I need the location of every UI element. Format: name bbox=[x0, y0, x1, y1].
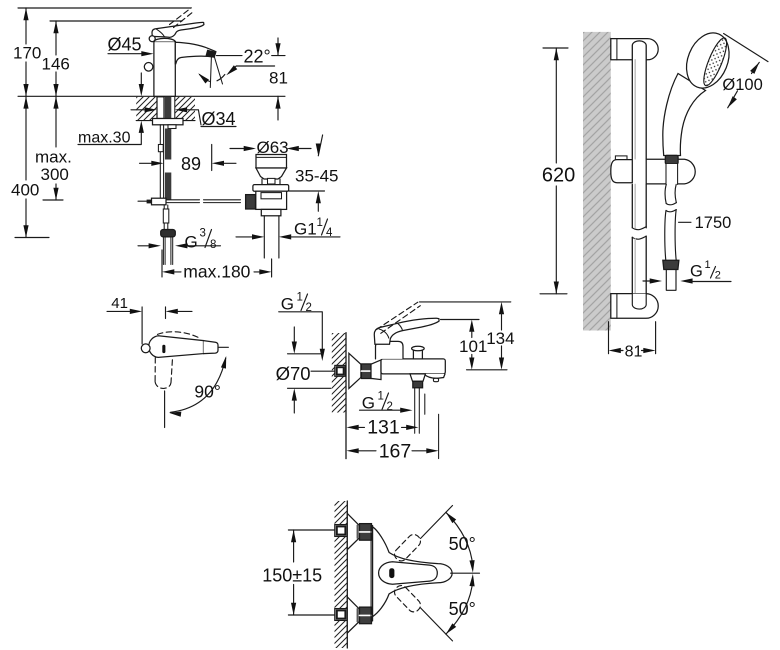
lower cylinder bbox=[261, 209, 281, 215]
wall line bbox=[345, 333, 347, 459]
faucet body bbox=[154, 42, 175, 97]
dimension max.180 bbox=[162, 250, 272, 277]
dimension 89 bbox=[211, 145, 213, 171]
svg-text:81: 81 bbox=[625, 344, 643, 361]
tail pipe bbox=[264, 216, 279, 258]
below counter: sleeve bbox=[157, 97, 164, 119]
svg-text:max.: max. bbox=[35, 148, 72, 167]
fig3 lever tip extension bbox=[441, 319, 480, 321]
diverter knob bbox=[413, 350, 422, 359]
wall hatch bbox=[335, 501, 348, 648]
90 deg arc bbox=[171, 358, 226, 412]
body back plate bbox=[371, 525, 373, 621]
dimension 146 bbox=[55, 21, 57, 96]
dimension 81 bbox=[272, 38, 285, 56]
dimension 170 bbox=[25, 8, 27, 96]
svg-text:max.30: max.30 bbox=[78, 130, 131, 147]
svg-text:G: G bbox=[690, 263, 703, 281]
hose upper bbox=[665, 184, 676, 203]
svg-text:2: 2 bbox=[715, 270, 721, 282]
shower outlet bottom bbox=[410, 374, 425, 381]
threaded stud in hole bbox=[165, 97, 172, 119]
washer flange bbox=[153, 119, 184, 125]
body with lever loop (top view) bbox=[373, 527, 453, 617]
dimension 35-45 bbox=[318, 135, 322, 156]
lower escutcheon cone bbox=[347, 597, 359, 633]
union nut knurled bbox=[361, 364, 371, 379]
lever fig3 bbox=[374, 318, 439, 344]
svg-text:50°: 50° bbox=[449, 599, 476, 619]
dashed lever -50 bbox=[392, 583, 423, 614]
horizontal centerline right bbox=[451, 572, 480, 574]
slotted body bbox=[256, 191, 287, 209]
horizontal ref line right of handle bbox=[219, 346, 229, 348]
fig3 top extension line bbox=[420, 301, 511, 303]
handshower head bbox=[679, 27, 737, 95]
upper union nut bbox=[360, 524, 372, 541]
svg-text:81: 81 bbox=[269, 69, 288, 88]
lower pull rod bbox=[164, 205, 168, 230]
tick for 400 bottom bbox=[15, 237, 49, 239]
dimension 150 +/- 15 bbox=[288, 530, 334, 615]
slant extension upper bbox=[421, 506, 453, 539]
angle legs from aerator bbox=[210, 54, 222, 88]
top flange bbox=[253, 185, 289, 192]
dimension O70 bbox=[293, 327, 295, 343]
rail lower segment bbox=[632, 236, 646, 294]
outlet extension lines bbox=[415, 388, 425, 434]
counter slab hatched left bbox=[136, 97, 157, 120]
raised lever dashed bbox=[170, 8, 194, 28]
angle arc arrows bbox=[200, 75, 211, 82]
svg-text:400: 400 bbox=[11, 181, 39, 200]
wall hatch bbox=[332, 333, 346, 413]
extension line top (170 ref) bbox=[18, 7, 191, 9]
svg-text:35-45: 35-45 bbox=[295, 167, 338, 186]
handle mark dark bbox=[162, 345, 165, 353]
dimension 134 bbox=[499, 302, 504, 314]
dimension max.300 bbox=[55, 96, 57, 200]
svg-text:167: 167 bbox=[379, 441, 412, 463]
angle arc lower bbox=[446, 580, 473, 634]
dimension 81 rail bbox=[609, 322, 656, 354]
pop-up rod horizontal bbox=[166, 200, 241, 203]
svg-text:Ø70: Ø70 bbox=[276, 363, 311, 384]
dashed handle rotated down bbox=[155, 358, 172, 383]
aerator tip dark bbox=[206, 50, 216, 58]
plug head bbox=[256, 155, 287, 169]
svg-text:89: 89 bbox=[181, 154, 201, 174]
svg-text:41: 41 bbox=[111, 295, 128, 312]
svg-text:131: 131 bbox=[367, 417, 400, 439]
rod coupler at faucet bbox=[152, 198, 167, 205]
svg-text:Ø63: Ø63 bbox=[257, 138, 289, 157]
svg-text:2: 2 bbox=[387, 401, 393, 413]
upper escutcheon cone bbox=[347, 513, 359, 549]
spout outlet right bbox=[424, 374, 445, 378]
handle end cap bbox=[204, 341, 219, 354]
wall band gray hatched bbox=[583, 32, 611, 331]
svg-text:max.180: max.180 bbox=[183, 262, 250, 282]
counter top line bbox=[18, 95, 285, 97]
dimension 620 bbox=[540, 48, 568, 294]
lever hinge pin bbox=[149, 36, 155, 42]
spout bbox=[175, 42, 216, 64]
hose nut below handle bbox=[665, 155, 678, 164]
cone neck bbox=[256, 168, 287, 179]
dimension 400 bbox=[25, 96, 27, 237]
handle solid (top view) bbox=[149, 336, 204, 358]
label G 1/2 fig4 bbox=[643, 280, 651, 282]
G 3/8 nut bbox=[161, 230, 176, 237]
handshower handle bbox=[663, 74, 706, 156]
wire to left bbox=[138, 200, 147, 202]
extension line (146 ref) bbox=[50, 20, 182, 22]
supply hoses bbox=[163, 237, 172, 265]
stud lower segments bbox=[165, 129, 171, 160]
face plate with spray dots bbox=[699, 36, 730, 88]
shared bottom tick bbox=[467, 369, 508, 371]
svg-text:1: 1 bbox=[317, 217, 323, 229]
label 1750 bbox=[679, 221, 692, 223]
dashed lever +50 bbox=[392, 532, 423, 563]
dimension O100 bbox=[724, 34, 768, 62]
svg-text:1: 1 bbox=[297, 292, 303, 304]
rail mid segment bbox=[632, 184, 646, 227]
dashed raised lever fig3 bbox=[377, 302, 421, 333]
angle arc upper bbox=[446, 512, 473, 566]
svg-text:4: 4 bbox=[326, 227, 333, 239]
holder lobe bbox=[646, 159, 695, 184]
svg-text:G1: G1 bbox=[294, 220, 317, 239]
svg-text:150±15: 150±15 bbox=[262, 566, 322, 586]
svg-text:G: G bbox=[281, 295, 294, 314]
dimension G 3/8 bbox=[138, 245, 149, 247]
lower union nut bbox=[360, 607, 372, 624]
rail break bbox=[632, 227, 646, 240]
svg-text:Ø100: Ø100 bbox=[722, 76, 762, 94]
svg-text:3: 3 bbox=[200, 228, 206, 240]
svg-text:8: 8 bbox=[210, 239, 216, 251]
svg-text:620: 620 bbox=[542, 165, 575, 187]
dimension 167 bbox=[346, 448, 358, 453]
wall line bbox=[346, 501, 348, 648]
svg-text:22°: 22° bbox=[244, 47, 271, 67]
cartridge dome bbox=[154, 38, 175, 41]
hose end pipe bbox=[666, 270, 676, 291]
bottom bracket bbox=[611, 294, 658, 319]
hose break bbox=[666, 203, 676, 212]
handle mark dark bbox=[389, 568, 394, 578]
upper inlet: square nut bbox=[335, 525, 348, 537]
svg-text:Ø45: Ø45 bbox=[108, 35, 142, 55]
body bbox=[381, 359, 445, 374]
dimension 101 bbox=[469, 320, 474, 332]
dimension max.30 bbox=[140, 73, 142, 85]
label G 1 1/4 bbox=[236, 236, 253, 238]
tick for max.300 bottom bbox=[43, 199, 63, 201]
dashed swung handle top arc bbox=[158, 332, 201, 339]
lower inlet: square nut bbox=[335, 609, 348, 621]
inlet square nut in wall bbox=[335, 365, 345, 376]
pull rod bbox=[160, 125, 163, 199]
rail upper segment with cap into bracket bbox=[632, 41, 646, 159]
svg-text:1: 1 bbox=[705, 259, 711, 271]
rod ball joint nut bbox=[246, 195, 256, 209]
svg-text:300: 300 bbox=[41, 165, 69, 184]
pull-rod knob bbox=[144, 63, 153, 72]
svg-text:1: 1 bbox=[378, 391, 384, 403]
counter slab bottom line bbox=[136, 120, 195, 122]
cartridge riser bbox=[376, 341, 404, 359]
hose lower bbox=[665, 210, 676, 261]
svg-text:Ø34: Ø34 bbox=[202, 109, 236, 129]
escutcheon cone bbox=[349, 353, 361, 388]
svg-text:G: G bbox=[185, 233, 198, 252]
svg-text:134: 134 bbox=[486, 329, 514, 348]
rail end into bottom bracket bbox=[632, 294, 646, 310]
svg-text:170: 170 bbox=[13, 44, 41, 63]
dimension O34 hole bbox=[131, 109, 145, 111]
svg-text:1750: 1750 bbox=[695, 214, 732, 232]
dimension 131 bbox=[346, 425, 358, 430]
lever inner opening bbox=[379, 562, 438, 584]
slant extension lower bbox=[421, 608, 453, 641]
svg-text:90°: 90° bbox=[194, 382, 220, 402]
pin circle bbox=[141, 344, 150, 353]
slider clamp bbox=[615, 156, 627, 160]
lever handle bbox=[152, 22, 204, 37]
centerline below bbox=[164, 391, 166, 428]
hose bottom nut bbox=[663, 260, 679, 269]
counter slab hatched right bbox=[175, 97, 195, 120]
svg-text:146: 146 bbox=[42, 55, 70, 74]
body taper bbox=[371, 360, 381, 380]
top bracket bbox=[611, 39, 658, 60]
svg-text:101: 101 bbox=[459, 337, 487, 356]
svg-text:50°: 50° bbox=[449, 534, 476, 554]
